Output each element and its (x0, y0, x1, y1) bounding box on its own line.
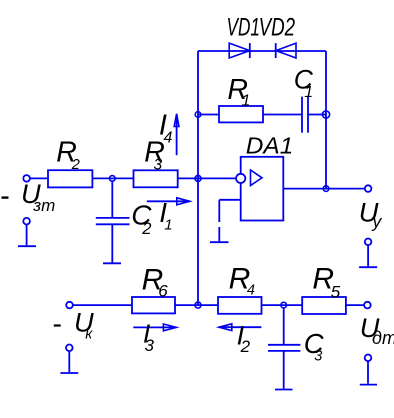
capacitor C3 (268, 308, 300, 389)
wire: op-amp second input to ground (219, 200, 240, 242)
svg-text:1: 1 (304, 84, 313, 101)
terminal: input Uk at (69.5,305.1) (66, 302, 73, 309)
svg-text:3: 3 (154, 157, 163, 174)
label Uy (359, 196, 383, 231)
svg-text:2: 2 (71, 157, 80, 173)
ground: below Uzm terminal (18, 225, 36, 247)
node: junction C2 tap at (112.3,178.4) (110, 176, 116, 182)
terminal: ground terminal below Uk at (69.3,347.8) (66, 345, 73, 352)
terminal: ground terminal below Uy at (368.1,241.8) (365, 239, 372, 246)
label R6 (142, 263, 169, 300)
current arrow I4 (174, 114, 179, 155)
wire: main signal wire y=178.4 (30, 177, 236, 179)
svg-text:2: 2 (240, 337, 251, 356)
label I4 (159, 109, 173, 146)
terminal: ground terminal below Uzm at (26.6,221.2) (23, 218, 30, 225)
label R3 (144, 136, 165, 173)
resistor R2 (48, 170, 92, 187)
current arrow I3 (133, 324, 176, 331)
svg-text:зm: зm (32, 196, 55, 215)
ground: below Uy terminal (359, 245, 377, 267)
wire: top diode branch from node A to node B (198, 50, 326, 52)
diode VD2 (276, 43, 296, 58)
ground: op-amp input (210, 241, 229, 243)
terminal: ground terminal below Udm at (368,357.8) (365, 355, 372, 362)
label VD2 (259, 13, 296, 41)
svg-text:дm: дm (372, 328, 394, 348)
svg-text:3: 3 (145, 336, 155, 355)
capacitor C2 (96, 181, 130, 263)
label R2 (56, 136, 80, 173)
ground: below C2 (103, 262, 121, 264)
current arrow I1 (147, 198, 190, 205)
label C3 (304, 328, 324, 364)
ground: below C3 (275, 389, 293, 391)
resistor R4 (218, 297, 262, 314)
terminal: output Udm at (367.4,305.1) (364, 302, 371, 309)
wire: left vertical bus node A x=198 from diode wire down to bottom wire (197, 51, 199, 305)
label Uk (74, 307, 94, 343)
sign minus for Uk (54, 324, 61, 326)
svg-text:к: к (85, 325, 93, 342)
svg-text:4: 4 (247, 283, 255, 299)
svg-text:VD2: VD2 (259, 13, 296, 41)
resistor R5 (302, 297, 346, 314)
label VD1 (227, 13, 261, 41)
wire: right vertical bus node B x=326 from diode wire down to output node (325, 51, 327, 189)
label R1 (227, 74, 250, 110)
label DA1 (246, 132, 293, 158)
label R5 (312, 263, 340, 302)
resistor R1 (219, 106, 263, 122)
sign minus for Uzm (2, 196, 9, 198)
diode VD1 (229, 43, 250, 58)
current arrow I2 (219, 324, 261, 331)
op-amp DA1 (241, 157, 284, 221)
wire: op-amp output to Uy terminal (283, 188, 364, 190)
svg-text:y: y (372, 211, 383, 231)
label C1 (294, 64, 314, 101)
svg-text:6: 6 (158, 281, 168, 300)
terminal: input Uzm at (26.6,178.4) (23, 175, 30, 182)
label I1 (159, 197, 172, 233)
wire: bottom wire y=305 (73, 304, 364, 306)
label R4 (229, 263, 255, 299)
ground: below Uk terminal (60, 351, 78, 373)
label I2 (237, 321, 251, 357)
label Uzm (21, 178, 55, 215)
svg-text:DA1: DA1 (246, 132, 293, 158)
resistor R3 (134, 170, 178, 187)
node: junction A3 at (198,305.1) (195, 302, 201, 308)
svg-text:2: 2 (141, 220, 151, 238)
ground: below Udm terminal (360, 361, 377, 385)
wire: R1-C1 branch at y=114.5 (198, 114, 326, 116)
node: junction A2 at (198,178.4) (195, 175, 201, 181)
svg-text:4: 4 (164, 129, 173, 146)
svg-text:5: 5 (331, 283, 341, 302)
node: junction A1 at (198,114.5) (195, 112, 201, 118)
label C2 (131, 199, 152, 238)
pin: op-amp inverting input circle (236, 174, 245, 183)
svg-text:1: 1 (164, 216, 172, 233)
resistor R6 (132, 297, 175, 313)
node: output junction at (326,188.6) (323, 186, 329, 192)
node: junction C3 tap at (283.7,305.1) (281, 302, 287, 308)
svg-text:1: 1 (242, 92, 251, 109)
svg-text:VD1: VD1 (227, 13, 261, 41)
label Udm (360, 312, 394, 348)
terminal: output Uy at (368.1,188.6) (365, 185, 372, 192)
node: junction B1 at (326,114.5) (322, 111, 329, 118)
svg-text:3: 3 (314, 348, 322, 364)
capacitor C1 (302, 97, 308, 133)
label I3 (143, 319, 155, 355)
